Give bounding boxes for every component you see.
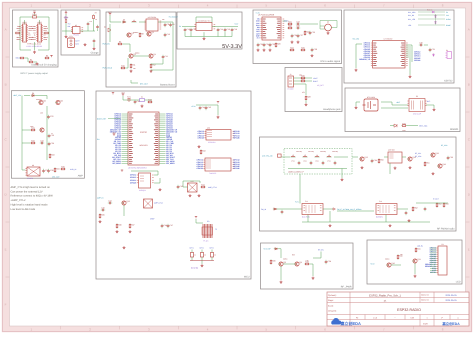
resistor R54 (443, 202, 448, 207)
svg-text:Low level is AB mode: Low level is AB mode (11, 208, 36, 211)
svg-text:R27: R27 (301, 78, 304, 81)
transistor Q13 (359, 156, 367, 161)
wire (294, 83, 307, 85)
svg-text:C44: C44 (108, 199, 111, 202)
svg-text:C24: C24 (296, 24, 299, 27)
inductor L3 (302, 154, 307, 157)
ground (189, 194, 192, 197)
svg-text:C20: C20 (260, 43, 263, 46)
transistor Q5 (38, 100, 45, 105)
ground (217, 116, 220, 119)
wire (352, 156, 358, 158)
resistor R10 (120, 65, 125, 69)
resistor R11 (130, 63, 135, 68)
svg-text:R35: R35 (61, 166, 64, 169)
wires codec right (406, 46, 411, 48)
svg-text:A: A (5, 28, 7, 32)
wire (108, 118, 121, 120)
power flag 5V (33, 10, 36, 15)
svg-text:FM_IN: FM_IN (261, 208, 267, 211)
ground (305, 103, 308, 106)
ground (432, 172, 435, 175)
svg-text:C30: C30 (419, 41, 422, 44)
5V to 3.3V LDO content (179, 17, 239, 40)
svg-text:TP4056: TP4056 (73, 34, 79, 37)
capacitor C9 (169, 23, 174, 27)
net labels U7 left (359, 42, 371, 61)
section box: XS9722 (344, 10, 454, 83)
LCD connector P4 (436, 243, 447, 275)
capacitor C20 (257, 43, 263, 47)
wire (288, 168, 347, 170)
resistor R29 (401, 122, 406, 126)
wire (34, 14, 36, 17)
net labels U10 left (197, 130, 203, 139)
ground (198, 145, 201, 148)
power flag (217, 102, 219, 104)
svg-text:U10: U10 (207, 127, 210, 130)
svg-text:L4: L4 (316, 154, 318, 157)
svg-text:BOOT_KEY: BOOT_KEY (97, 117, 107, 120)
resistor R33 (49, 153, 54, 158)
pin names U5 (263, 18, 266, 20)
IF filter module FL2 (376, 204, 397, 215)
resistor R27 (300, 78, 305, 82)
wire (356, 44, 362, 68)
ground (341, 178, 344, 181)
wire (414, 263, 416, 274)
resistor R3 (19, 57, 24, 59)
resistor R51 (424, 161, 429, 166)
svg-text:7of8: 7of8 (410, 316, 414, 319)
resistor R45 (99, 213, 104, 218)
wire (323, 208, 333, 210)
wire (123, 205, 125, 216)
resistor R22 (287, 25, 292, 29)
svg-text:Q15: Q15 (435, 152, 439, 155)
svg-text:A: A (468, 28, 470, 32)
Charge section content (62, 10, 99, 50)
wire (281, 156, 290, 158)
svg-text:Q6: Q6 (60, 100, 62, 103)
capacitor C41 (199, 106, 205, 110)
wire (185, 36, 232, 38)
LDO U4 AMS1117-3.3 (194, 20, 215, 31)
svg-text:AMP_CTL2: AMP_CTL2 (154, 202, 163, 205)
wire (409, 58, 411, 75)
Battery Boost content (103, 11, 178, 86)
DAC IC U5 (260, 17, 284, 40)
svg-text:R29: R29 (402, 122, 405, 125)
capacitor C10 (164, 33, 170, 37)
button K2 (200, 250, 203, 261)
svg-text:Date's Inv: Date's Inv (421, 294, 429, 297)
resistor R44 (200, 184, 205, 188)
resistor R4 (28, 59, 33, 63)
svg-text:GPIO14: GPIO14 (130, 179, 136, 182)
LCD section content (370, 243, 447, 277)
inductor L5 (326, 154, 331, 157)
svg-text:Q10: Q10 (391, 262, 395, 265)
capacitor C42 (205, 106, 211, 110)
wire (310, 264, 313, 276)
svg-text:C39: C39 (328, 260, 331, 263)
wire (334, 156, 348, 158)
svg-text:Q11: Q11 (417, 258, 420, 261)
svg-text:D6: D6 (32, 92, 34, 95)
resistor R47 (129, 223, 134, 228)
wire (123, 99, 152, 101)
svg-text:C25: C25 (312, 31, 315, 34)
svg-text:AMP_CTL1: AMP_CTL1 (208, 186, 217, 189)
wire (390, 125, 394, 127)
capacitor C53 (334, 161, 337, 165)
wire (110, 15, 121, 22)
svg-text:R28: R28 (307, 96, 310, 99)
ground (263, 49, 266, 52)
ground (269, 49, 272, 52)
wire (211, 17, 213, 23)
svg-text:W25Q64: W25Q64 (139, 189, 146, 192)
transistor Q3 (128, 53, 135, 58)
ground (280, 281, 283, 284)
svg-text:C54: C54 (374, 159, 377, 162)
capacitor C40 (134, 100, 140, 104)
resistor R1 (15, 32, 20, 34)
transistor Q7 (39, 128, 44, 132)
wire (391, 264, 401, 266)
svg-text:EDA: EDA (423, 322, 428, 325)
svg-text:ESP32-RADIO: ESP32-RADIO (397, 308, 421, 312)
ground (159, 188, 162, 191)
svg-text:R25: R25 (301, 47, 304, 50)
svg-text:Q9: Q9 (299, 261, 301, 264)
svg-text:ESP32: ESP32 (140, 131, 148, 134)
svg-text:I2S to audio signal: I2S to audio signal (320, 60, 340, 63)
svg-text:2024-05-26: 2024-05-26 (445, 294, 457, 297)
svg-text:C23: C23 (296, 20, 299, 23)
wire right loop (151, 40, 173, 70)
svg-text:C10: C10 (167, 33, 170, 36)
ground (198, 194, 201, 197)
svg-text:Can power the external 12V: Can power the external 12V (11, 190, 43, 193)
wire (39, 20, 41, 24)
capacitor C56 (281, 210, 284, 214)
wire (424, 44, 428, 46)
ground (65, 35, 68, 38)
wire (65, 14, 67, 31)
svg-text:Q5: Q5 (43, 100, 45, 103)
diode D6 (31, 92, 35, 96)
svg-text:GPIO25: GPIO25 (233, 136, 239, 139)
audio opamp U6 (320, 21, 336, 31)
net labels U11 left (196, 159, 202, 171)
svg-text:Headphone jack: Headphone jack (323, 108, 341, 111)
ground (327, 32, 330, 35)
transistor Q16 (437, 163, 445, 168)
diode D5 (394, 124, 397, 127)
amp IC U7 (371, 41, 408, 69)
section box: AMP (11, 91, 84, 179)
wire (231, 32, 233, 36)
svg-text:B10.7MHz: B10.7MHz (302, 216, 310, 219)
svg-text:C55: C55 (450, 156, 453, 159)
resistor R24 (289, 47, 294, 51)
svg-text:AUD_IN: AUD_IN (70, 168, 77, 171)
svg-text:R33: R33 (51, 154, 54, 157)
svg-text:U9 ESP32-WROVER-E: U9 ESP32-WROVER-E (128, 166, 148, 169)
net labels U10 right (233, 130, 239, 139)
wire (151, 59, 163, 64)
resistor R21 (287, 21, 292, 25)
svg-text:RF_EN: RF_EN (318, 249, 324, 252)
resistor R40 (397, 254, 402, 259)
wire left loop (20, 17, 31, 50)
inductor L4 (314, 154, 319, 157)
svg-text:RF FM/AM radio: RF FM/AM radio (437, 228, 455, 231)
LP filter shield (dashed) (284, 149, 352, 175)
net labels ESP32 right (166, 113, 178, 165)
svg-text:+AMP_CTL2: +AMP_CTL2 (11, 199, 26, 202)
pin names U7 (373, 42, 376, 44)
capacitor C5 (96, 25, 99, 29)
wire loop (183, 181, 200, 183)
svg-text:C33: C33 (50, 115, 53, 118)
IC U13 (188, 180, 198, 192)
svg-text:GPIO25: GPIO25 (130, 181, 136, 184)
capacitor C11 (162, 55, 168, 59)
ground (201, 264, 204, 267)
capacitor C47 (167, 224, 173, 228)
wire (217, 105, 219, 115)
capacitor C37 (42, 169, 48, 173)
svg-text:L1: L1 (133, 19, 135, 22)
wire (182, 26, 196, 28)
svg-text:R42: R42 (148, 99, 151, 102)
boost IC U3 (144, 16, 161, 31)
svg-text:R26: R26 (301, 75, 304, 78)
power flag 5V (65, 10, 68, 15)
svg-text:2024-05-26: 2024-05-26 (445, 299, 457, 302)
power flag (50, 55, 52, 57)
svg-text:C38: C38 (50, 169, 53, 172)
svg-text:3V3: 3V3 (112, 131, 115, 134)
wire (201, 261, 203, 265)
resistor R23 (304, 30, 309, 35)
ground (409, 166, 412, 169)
ground (33, 51, 36, 54)
svg-text:U6: U6 (327, 21, 329, 24)
section box: MCU (96, 91, 251, 279)
svg-text:ANT_FM_AM: ANT_FM_AM (262, 154, 273, 157)
net labels U12 (130, 174, 136, 185)
section box: RF FM/AM radio (260, 137, 457, 231)
capacitor C25 (309, 31, 315, 35)
svg-text:BAT+: BAT+ (76, 40, 80, 43)
svg-text:C34: C34 (40, 139, 43, 142)
svg-text:P3: P3 (416, 95, 418, 98)
svg-text:C26: C26 (294, 34, 297, 37)
svg-text:R20: R20 (277, 43, 280, 46)
resistor R32 (30, 140, 35, 144)
capacitor C15 (224, 28, 230, 32)
capacitor C21 (263, 43, 269, 47)
ground (312, 277, 315, 280)
wire (203, 32, 205, 36)
svg-text:USB2: USB2 (37, 21, 41, 24)
wire (397, 208, 408, 210)
section box: SD8301 (345, 88, 460, 132)
svg-text:R36: R36 (272, 260, 275, 263)
ground (93, 47, 96, 50)
svg-text:P0: P0 (356, 316, 358, 319)
svg-text:U2: U2 (75, 24, 77, 27)
I2S DAC content (256, 12, 338, 57)
section box: Battery Boost (106, 12, 176, 87)
transistor Q14 (407, 156, 415, 161)
svg-text:嘉立创EDA: 嘉立创EDA (340, 321, 362, 326)
svg-text:74HC125: 74HC125 (209, 172, 216, 175)
svg-text:E: E (5, 248, 7, 252)
wire (123, 44, 130, 52)
svg-text:LCD: LCD (456, 281, 461, 284)
wire (384, 156, 388, 158)
wire BAT- (381, 107, 408, 109)
svg-text:MCU: MCU (244, 276, 250, 279)
ground (389, 224, 392, 227)
svg-text:CP2102N: CP2102N (208, 141, 216, 144)
wire (300, 23, 318, 25)
resistor R38 (304, 261, 309, 265)
ground (394, 167, 397, 170)
resistor R7 (93, 14, 95, 19)
svg-text:XS9722: XS9722 (444, 80, 453, 83)
section box: RF _PWR (261, 243, 354, 289)
resistor R2 (44, 32, 49, 34)
svg-text:C8: C8 (167, 23, 169, 26)
resistor R6 (65, 20, 67, 23)
wire (65, 31, 67, 35)
button K3 (210, 250, 213, 261)
svg-text:C42: C42 (208, 106, 211, 109)
svg-text:U-262-241N-4BV60: U-262-241N-4BV60 (26, 45, 42, 48)
svg-text:SPI_MISO: SPI_MISO (112, 162, 121, 165)
svg-text:NS4150: NS4150 (27, 177, 33, 180)
wire (24, 20, 26, 24)
ground (297, 41, 300, 44)
svg-text:C41: C41 (202, 106, 205, 109)
IC U14 (144, 199, 153, 208)
ground (129, 230, 132, 233)
resistor R43 (200, 149, 205, 154)
capacitor C27 (297, 34, 303, 38)
svg-text:C22: C22 (272, 43, 275, 46)
ground (123, 246, 126, 249)
module FL2 hatch (380, 205, 389, 213)
svg-text:B: B (5, 83, 7, 87)
capacitor C50 (298, 161, 301, 165)
wire (154, 178, 160, 183)
svg-text:GPIO12: GPIO12 (130, 174, 136, 177)
amp IC U8 (25, 164, 40, 176)
ground (291, 41, 294, 44)
svg-text:嘉立创EDA: 嘉立创EDA (441, 322, 460, 326)
svg-text:Page:: Page: (328, 299, 334, 302)
svg-text:SD8301: SD8301 (450, 128, 459, 131)
capacitor C12 (184, 28, 190, 32)
svg-text:X1: X1 (141, 96, 143, 99)
svg-text:C31: C31 (432, 48, 435, 51)
wire (416, 202, 448, 204)
svg-text:Q16: Q16 (442, 163, 446, 166)
svg-text:E: E (468, 248, 470, 252)
ESP32 module U9 (122, 112, 166, 165)
net labels U5 left (256, 18, 260, 40)
transistor Q1 (126, 32, 133, 37)
IF filter module FL1 (302, 204, 323, 215)
USB connector USB2 (36, 21, 43, 42)
title block (327, 292, 469, 326)
wire (46, 96, 48, 100)
USB power section content (15, 10, 53, 66)
power flag (112, 93, 114, 95)
wire flash loop (131, 171, 158, 175)
svg-text:J1: J1 (290, 73, 292, 76)
capacitor C23 (296, 20, 300, 25)
wire (407, 125, 418, 127)
wire (305, 84, 307, 95)
svg-text:Battery Boost: Battery Boost (160, 84, 175, 87)
resistor R42 (147, 99, 152, 103)
section box: USB circuit 5V charging (13, 10, 59, 67)
capacitor C35 (48, 134, 54, 138)
wire (418, 11, 445, 13)
svg-text:R46: R46 (118, 224, 121, 227)
svg-text:R47: R47 (131, 224, 134, 227)
wire (184, 32, 186, 36)
power flag 3V3 (112, 131, 115, 136)
capacitor C52 (322, 161, 325, 165)
ground (408, 219, 411, 222)
ground (409, 75, 412, 78)
capacitor C28 (311, 48, 317, 52)
capacitor C14 (217, 28, 223, 32)
wire (294, 77, 313, 79)
svg-text:+3.3V_RF: +3.3V_RF (263, 248, 271, 251)
power flag (195, 217, 197, 219)
svg-text:C15: C15 (227, 28, 230, 31)
transistor Q9 (294, 261, 301, 266)
wire (389, 163, 391, 174)
mixer IC U15 (388, 152, 402, 163)
wire (35, 95, 47, 97)
wire (195, 17, 197, 23)
flash IC U12 (137, 173, 154, 188)
power flag BAT (108, 11, 112, 16)
svg-text:R52: R52 (414, 207, 417, 210)
diode D7 (274, 248, 278, 250)
resistor R26 (300, 75, 305, 79)
IC U11 (203, 158, 234, 171)
wire (418, 24, 445, 26)
svg-text:Q12: Q12 (126, 200, 130, 203)
capacitor C33 (47, 115, 53, 119)
ground (130, 70, 133, 73)
section box: LCD (367, 240, 462, 284)
svg-text:D3: D3 (123, 19, 125, 22)
wire (217, 32, 219, 36)
wire (22, 169, 25, 171)
